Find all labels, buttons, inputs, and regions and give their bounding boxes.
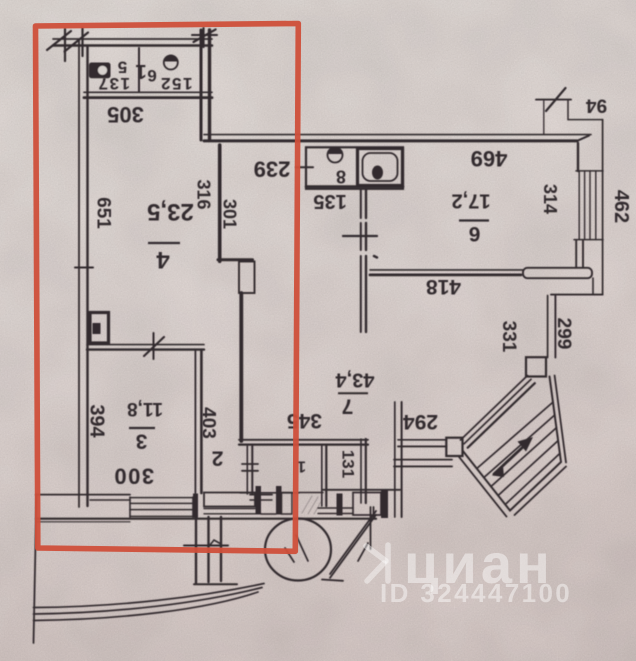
wall balcony right [201, 30, 210, 140]
wall right outer line [602, 120, 604, 294]
svg-text:345: 345 [287, 409, 322, 432]
fraction line room7 [338, 392, 368, 394]
svg-text:131: 131 [339, 450, 358, 478]
wall line right of box3 [373, 507, 375, 517]
svg-text:4: 4 [156, 246, 170, 273]
svg-text:299: 299 [553, 318, 574, 350]
svg-text:152: 152 [160, 74, 193, 93]
wall main top [204, 135, 591, 141]
wall below window [576, 240, 583, 268]
wall room3 right [195, 351, 201, 493]
door sill line [261, 513, 276, 515]
svg-text:469: 469 [471, 146, 508, 171]
wall room6 right upper [577, 143, 579, 171]
flue square room3 [90, 313, 109, 344]
pilaster [239, 262, 255, 294]
terrace arcs [34, 584, 265, 621]
svg-text:23,5: 23,5 [147, 198, 194, 225]
svg-text:5: 5 [118, 58, 127, 77]
wall lines right of red [240, 490, 400, 493]
dim 94 lines [536, 88, 603, 134]
wall room3 top [87, 345, 204, 350]
wall room6 bottom [370, 270, 523, 275]
shaft wall right [361, 439, 366, 503]
doorway threshold box 1 [204, 493, 255, 507]
svg-text:2: 2 [212, 447, 224, 470]
wall corridor below bathroom [361, 189, 366, 332]
door jamb ticks room1 [242, 464, 258, 471]
wall room1 left [247, 446, 252, 494]
wall A to bay [398, 440, 447, 447]
doorway threshold box 2 [282, 493, 293, 515]
wall room7 right vertical [395, 402, 402, 517]
svg-text:651: 651 [93, 197, 114, 229]
tick T3 top of right balcony wall [192, 28, 217, 47]
wall bar right corner [523, 268, 592, 278]
bay square left [446, 438, 462, 456]
svg-text:305: 305 [107, 102, 144, 127]
tick corridor wall [343, 235, 377, 237]
watermark logo [366, 545, 388, 581]
svg-text:394: 394 [86, 404, 108, 438]
faint hatch [302, 496, 322, 514]
chamfer diagonal [330, 507, 376, 578]
wall bar to notch connector [592, 278, 594, 295]
svg-text:94: 94 [586, 95, 608, 116]
stairs outline [459, 376, 566, 517]
wall room4 right upper [218, 145, 222, 261]
toilet room8 [328, 147, 343, 163]
tick T1 left end [47, 29, 71, 61]
door jamb dark [193, 494, 198, 518]
wall balcony bottom [84, 92, 212, 97]
svg-text:7: 7 [342, 395, 354, 418]
toilet room 6 [164, 55, 178, 70]
svg-text:11,8: 11,8 [127, 398, 163, 419]
wall jog [218, 258, 253, 261]
svg-text:17,2: 17,2 [452, 190, 491, 212]
lines under box1 [204, 509, 261, 514]
svg-text:300: 300 [113, 464, 154, 489]
shaft wall left [322, 445, 327, 506]
wall left exterior [79, 40, 88, 507]
stairs steps [477, 402, 560, 504]
window room3 bottom [130, 497, 193, 517]
svg-text:314: 314 [540, 184, 560, 214]
wall notch vertical [548, 296, 556, 358]
door jamb left [256, 486, 262, 515]
svg-text:331: 331 [498, 321, 519, 353]
tick T2 [65, 28, 89, 56]
lines left of box3 [318, 508, 353, 514]
wall notch horizontal [551, 294, 603, 296]
wall bottom exterior inner [36, 495, 272, 500]
wall corridor horizontal [239, 440, 368, 445]
svg-text:418: 418 [426, 275, 461, 298]
svg-text:6: 6 [147, 66, 156, 85]
bathroom room8 box [306, 147, 403, 189]
svg-text:137: 137 [97, 74, 130, 93]
svg-text:301: 301 [220, 199, 240, 229]
red highlight rectangle [36, 24, 299, 552]
fraction line room6 [459, 219, 489, 221]
tick on left wall [75, 267, 93, 269]
dark corner right of box3 [381, 489, 388, 518]
bathtub room8 [358, 149, 403, 186]
fraction line room3 [129, 427, 155, 429]
tick room3 top wall [144, 333, 164, 359]
entry protrusion walls [196, 517, 221, 583]
svg-text:239: 239 [254, 157, 291, 182]
svg-text:3: 3 [136, 430, 148, 453]
tick bathroom left [296, 166, 313, 168]
column circle [265, 519, 331, 581]
svg-text:43,4: 43,4 [335, 369, 375, 391]
svg-text:316: 316 [194, 179, 214, 209]
bay window triple line [461, 376, 535, 448]
svg-text:462: 462 [610, 190, 632, 223]
svg-text:135: 135 [313, 190, 346, 212]
doorway threshold box 3 [353, 493, 381, 516]
svg-text:6: 6 [469, 222, 481, 245]
svg-text:294: 294 [403, 410, 438, 433]
window room6 right [574, 171, 603, 240]
wall balcony partition [138, 48, 140, 92]
wall B to bay [394, 460, 452, 467]
door jamb right [276, 486, 282, 515]
svg-text:1: 1 [135, 60, 146, 82]
fraction line room4 [148, 242, 180, 244]
wall room4 right lower [239, 293, 243, 441]
shaft jamb dark [337, 494, 343, 516]
svg-text:8: 8 [336, 167, 346, 187]
terrace bottom line [194, 583, 237, 585]
stairs arrow [492, 437, 533, 477]
sink room 5 [89, 63, 111, 79]
wall bottom exterior outer [36, 519, 376, 522]
left edge line [34, 494, 37, 643]
bay square top [526, 357, 546, 376]
svg-text:ID 324447100: ID 324447100 [380, 578, 572, 608]
dot mark [374, 256, 377, 258]
svg-text:403: 403 [198, 407, 219, 439]
wall balcony top [53, 39, 212, 46]
protrusion dash [184, 540, 228, 546]
line right of circle [322, 580, 343, 581]
